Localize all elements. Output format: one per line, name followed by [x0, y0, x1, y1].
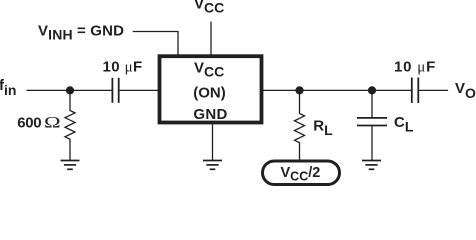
- wire C2 to output: [419, 89, 448, 91]
- node C junction dot: [368, 86, 376, 94]
- ground G1: [61, 161, 80, 170]
- svg-text:(ON): (ON): [193, 84, 226, 101]
- wire box GND down: [212, 124, 214, 160]
- capacitor C2 10uF plates: [412, 78, 419, 104]
- svg-text:10 μF: 10 μF: [103, 59, 143, 76]
- IC box U1: [160, 56, 262, 122]
- ground G3: [362, 161, 381, 170]
- svg-text:600: 600: [17, 115, 41, 132]
- ground G2: [203, 161, 222, 170]
- wire VINH to box top: [133, 32, 178, 57]
- svg-text:10 μF: 10 μF: [394, 58, 436, 75]
- node B junction dot: [295, 86, 303, 94]
- supply oval VCC/2: [263, 161, 340, 185]
- svg-text:Ω: Ω: [44, 114, 61, 131]
- resistor 600 ohm: [65, 90, 75, 160]
- resistor RL: [295, 90, 305, 161]
- capacitor CL wire bottom: [371, 126, 373, 160]
- capacitor CL wire top: [371, 90, 373, 117]
- wire box output: [263, 89, 412, 91]
- wire VCC to box top: [210, 22, 212, 57]
- svg-text:VINH = GND: VINH = GND: [38, 23, 124, 43]
- svg-text:GND: GND: [193, 106, 227, 123]
- capacitor CL plates: [357, 118, 387, 126]
- wire C1 to box: [120, 89, 159, 91]
- svg-text:VCC: VCC: [194, 60, 224, 80]
- node A junction dot: [66, 86, 74, 94]
- capacitor C1 10uF plates: [112, 78, 118, 103]
- wire fin input: [27, 89, 112, 91]
